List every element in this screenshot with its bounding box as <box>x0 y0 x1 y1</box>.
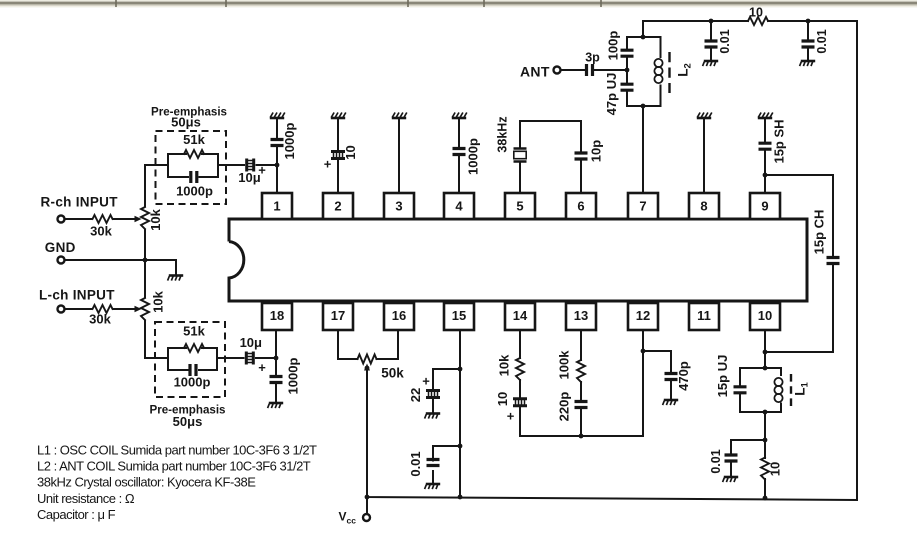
svg-text:0.01: 0.01 <box>718 29 732 53</box>
svg-text:15: 15 <box>452 308 466 323</box>
svg-text:+: + <box>324 157 332 172</box>
svg-text:100k: 100k <box>557 350 572 380</box>
svg-text:17: 17 <box>331 308 345 323</box>
svg-text:8: 8 <box>700 198 707 213</box>
svg-text:0.01: 0.01 <box>709 449 723 473</box>
svg-text:10: 10 <box>758 308 772 323</box>
svg-text:1000p: 1000p <box>286 358 301 395</box>
svg-text:16: 16 <box>392 308 406 323</box>
svg-text:30k: 30k <box>89 312 111 327</box>
svg-text:51k: 51k <box>183 324 205 339</box>
svg-text:15p CH: 15p CH <box>812 210 827 255</box>
svg-text:50μs: 50μs <box>171 115 201 130</box>
svg-text:L2 : ANT COIL Sumida part numb: L2 : ANT COIL Sumida part number 10C-3F6… <box>37 459 311 474</box>
svg-text:10μ: 10μ <box>240 335 262 350</box>
svg-text:4: 4 <box>455 198 463 213</box>
svg-text:1000p: 1000p <box>282 123 297 160</box>
svg-text:10k: 10k <box>148 208 163 230</box>
svg-text:7: 7 <box>639 198 646 213</box>
svg-text:+: + <box>507 409 515 424</box>
svg-text:+: + <box>258 163 266 178</box>
svg-text:14: 14 <box>513 308 528 323</box>
svg-text:10: 10 <box>768 462 783 476</box>
svg-text:0.01: 0.01 <box>815 29 829 53</box>
svg-text:GND: GND <box>45 240 76 255</box>
svg-text:L1 : OSC COIL Sumida part numb: L1 : OSC COIL Sumida part number 10C-3F6… <box>37 443 317 458</box>
svg-text:10: 10 <box>343 145 358 159</box>
svg-text:470p: 470p <box>676 361 691 391</box>
svg-text:1000p: 1000p <box>176 184 213 199</box>
svg-text:13: 13 <box>574 308 588 323</box>
svg-text:10p: 10p <box>589 140 604 162</box>
svg-text:Capacitor : μ F: Capacitor : μ F <box>37 507 116 522</box>
svg-text:50k: 50k <box>381 366 404 381</box>
svg-text:22: 22 <box>408 388 423 402</box>
svg-text:R-ch INPUT: R-ch INPUT <box>41 195 119 210</box>
svg-text:38kHz: 38kHz <box>496 116 510 152</box>
svg-text:ANT: ANT <box>520 64 550 80</box>
svg-text:9: 9 <box>761 198 768 213</box>
svg-text:30k: 30k <box>90 224 112 239</box>
svg-text:1000p: 1000p <box>466 138 481 175</box>
svg-text:0.01: 0.01 <box>408 451 423 476</box>
svg-text:10k: 10k <box>497 354 512 376</box>
svg-text:1000p: 1000p <box>174 375 211 390</box>
svg-text:100p: 100p <box>606 31 621 61</box>
svg-text:12: 12 <box>636 308 650 323</box>
svg-text:+: + <box>258 360 266 375</box>
svg-text:3: 3 <box>395 198 402 213</box>
svg-text:38kHz Crystal oscillator: Kyoc: 38kHz Crystal oscillator: Kyocera KF-38E <box>37 475 256 490</box>
svg-text:10: 10 <box>749 6 763 20</box>
svg-text:10: 10 <box>495 392 510 406</box>
svg-text:50μs: 50μs <box>173 414 203 429</box>
svg-text:15p UJ: 15p UJ <box>715 355 730 398</box>
svg-text:15p SH: 15p SH <box>772 119 787 163</box>
svg-text:6: 6 <box>577 198 584 213</box>
svg-text:3p: 3p <box>585 51 600 65</box>
svg-text:11: 11 <box>697 308 711 323</box>
svg-text:2: 2 <box>334 198 341 213</box>
svg-text:+: + <box>422 374 430 389</box>
svg-text:10k: 10k <box>151 290 166 312</box>
svg-text:220p: 220p <box>557 392 572 422</box>
svg-text:1: 1 <box>273 198 280 213</box>
svg-text:Unit resistance : Ω: Unit resistance : Ω <box>37 491 135 506</box>
svg-text:L-ch INPUT: L-ch INPUT <box>39 288 115 303</box>
svg-text:51k: 51k <box>183 132 205 147</box>
svg-text:47p UJ: 47p UJ <box>604 73 619 116</box>
svg-text:5: 5 <box>516 198 523 213</box>
svg-text:18: 18 <box>270 308 284 323</box>
